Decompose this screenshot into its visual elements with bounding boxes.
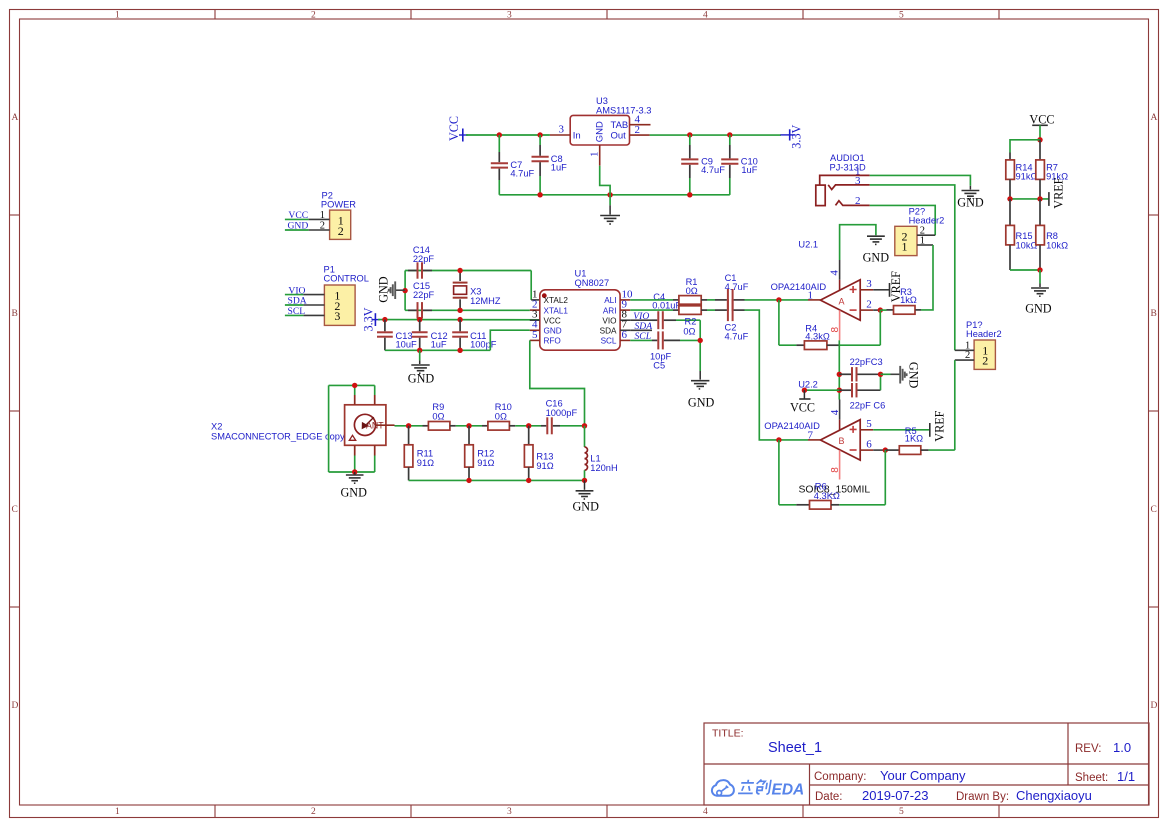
resistor R14 [1006, 153, 1038, 199]
wire jack pin1 to gnd [870, 175, 971, 185]
svg-text:GND: GND [376, 276, 390, 303]
U2.2 pin 4 top [829, 400, 841, 431]
resistor R12 [465, 426, 495, 481]
node junction A output [776, 297, 781, 302]
svg-text:Date:: Date: [815, 791, 843, 803]
svg-text:GND: GND [863, 251, 890, 265]
svg-text:4.3KΩ: 4.3KΩ [814, 491, 840, 501]
svg-text:1: 1 [320, 210, 325, 221]
capacitor C15 [408, 281, 435, 319]
svg-text:5: 5 [899, 11, 904, 21]
net label VIO on pin8 wire [630, 311, 652, 322]
capacitor C1 [707, 273, 749, 311]
U3 pin 4 TAB [630, 114, 651, 126]
ground symbol at L1 [573, 480, 600, 513]
net flag 3.3V (right of U3) [780, 124, 803, 148]
svg-text:3: 3 [559, 123, 565, 135]
svg-text:22pF: 22pF [413, 290, 435, 300]
svg-text:GND: GND [544, 327, 562, 336]
U1 pin 3 VCC [530, 309, 561, 326]
svg-text:2: 2 [311, 11, 316, 21]
ground symbol jack [957, 186, 984, 210]
node junction C3 left [837, 372, 842, 377]
svg-text:3: 3 [507, 807, 512, 817]
svg-text:91kΩ: 91kΩ [1016, 171, 1038, 181]
svg-text:4.7uF: 4.7uF [725, 332, 749, 342]
svg-text:SCL: SCL [601, 337, 617, 346]
svg-text:D: D [1151, 701, 1158, 711]
svg-text:R9: R9 [432, 402, 444, 412]
ground flag right of C3 [881, 362, 921, 389]
wire xtal2 riser to U1 pin1 [530, 271, 532, 300]
wire U3 out to 3.3V [650, 134, 781, 136]
svg-text:SCL: SCL [635, 331, 652, 342]
P1 pin 3 [303, 314, 324, 316]
ground rail under regulator [499, 194, 730, 196]
svg-text:1/1: 1/1 [1117, 769, 1135, 784]
svg-text:XTAL1: XTAL1 [544, 306, 569, 315]
capacitor C6 [839, 374, 885, 410]
title block [704, 723, 1149, 805]
svg-text:1: 1 [589, 152, 601, 158]
wire 3.3V rail [378, 319, 541, 321]
svg-text:3: 3 [334, 309, 340, 323]
svg-text:3: 3 [507, 11, 512, 21]
svg-text:A: A [12, 113, 19, 123]
connector X2 SMACONNECTOR_EDGE [211, 405, 386, 446]
svg-text:22pF: 22pF [413, 254, 435, 264]
capacitor C12 [412, 320, 448, 351]
P2 pin 2 [309, 221, 330, 232]
node junction VCC/dividers [1037, 137, 1042, 142]
resistor R10 [482, 402, 541, 430]
node junction X3 bottom [457, 308, 462, 313]
node junction at C10 top [727, 132, 732, 137]
node junction rail/L1 [582, 478, 587, 483]
resistor R1 [630, 277, 707, 304]
svg-text:VREF: VREF [1052, 177, 1066, 208]
P1 pin 1 [303, 294, 324, 296]
svg-text:1uF: 1uF [551, 163, 567, 173]
wire C1 to opamp A output [745, 299, 809, 301]
svg-text:2: 2 [311, 807, 316, 817]
X2 shield pins bottom [329, 445, 375, 474]
svg-text:22pFC3: 22pFC3 [850, 357, 883, 367]
connector P2 POWER [321, 191, 356, 240]
capacitor C13 [377, 320, 417, 351]
svg-text:10uF: 10uF [396, 340, 418, 350]
U1 pin 2 XTAL1 [530, 299, 569, 316]
svg-text:GND: GND [288, 221, 309, 232]
resistor R3 [880, 287, 921, 314]
svg-text:8: 8 [830, 467, 841, 473]
svg-text:GND: GND [595, 121, 606, 142]
node junction B output [776, 437, 781, 442]
capacitor C4 [652, 292, 700, 329]
U1 pin 8 VIO [602, 309, 630, 326]
svg-text:4.7uF: 4.7uF [510, 169, 534, 179]
svg-text:U3: U3 [596, 96, 608, 106]
svg-text:5: 5 [899, 807, 904, 817]
wire VCC to U3 pin3 [466, 134, 550, 136]
U1 pin 1 XTAL2 [532, 288, 568, 305]
node junction A inverting input [878, 307, 883, 312]
net flag VCC at U2.2 [790, 388, 839, 415]
svg-text:5: 5 [866, 418, 872, 430]
U2.1 pin 4 top [829, 260, 841, 290]
wire rail to U1 pin4 [490, 330, 530, 350]
ground symbol under C12 [408, 350, 435, 385]
ground symbol under C5 [688, 371, 715, 410]
svg-text:R13: R13 [536, 452, 553, 462]
U1 pin 4 GND [530, 319, 562, 336]
svg-text:SDA: SDA [600, 327, 617, 336]
svg-text:120nH: 120nH [590, 463, 617, 473]
svg-text:0Ω: 0Ω [686, 286, 698, 296]
node junction R13 top [526, 423, 531, 428]
svg-text:CONTROL: CONTROL [324, 274, 369, 284]
capacitor C8 [532, 135, 568, 195]
P1? pin 2 [955, 350, 974, 361]
X2 signal pin wire [376, 424, 395, 426]
svg-text:U2.2: U2.2 [798, 379, 818, 389]
resistor R4 feedback [779, 300, 880, 350]
svg-text:91Ω: 91Ω [417, 458, 434, 468]
svg-text:SMACONNECTOR_EDGE copy: SMACONNECTOR_EDGE copy [211, 432, 345, 442]
title block text [712, 728, 1135, 804]
capacitor C3 [839, 357, 882, 382]
wire C2 to opamp B output (long drop) [745, 310, 809, 440]
svg-text:12MHZ: 12MHZ [470, 296, 501, 306]
wire jack pin2 to P2? header pin2 [870, 205, 936, 235]
wire A pin8 down to VCC node [838, 340, 840, 399]
svg-text:4: 4 [829, 270, 841, 276]
U2.1 pin 8 bottom [830, 310, 841, 340]
node junction at C7 top [497, 132, 502, 137]
svg-text:0.01uF: 0.01uF [652, 301, 681, 311]
wire pin4 to gnd [840, 225, 876, 260]
node junction C12 top [417, 317, 422, 322]
node junction C11 top [457, 317, 462, 322]
svg-text:VCC: VCC [447, 116, 461, 141]
node junction R12 top [466, 423, 471, 428]
svg-text:R12: R12 [477, 449, 494, 459]
svg-text:7: 7 [808, 429, 814, 441]
wire jack pin3 to P1? header pin1 [870, 185, 955, 350]
svg-text:TITLE:: TITLE: [712, 728, 744, 740]
net label SCL on pin6 wire [630, 331, 652, 342]
svg-text:91Ω: 91Ω [477, 458, 494, 468]
svg-text:R2: R2 [685, 316, 697, 326]
connector P1? Header2 [966, 320, 1002, 369]
svg-text:B: B [839, 436, 845, 446]
net flag VREF at U2.1 pin3 [889, 271, 903, 302]
svg-text:10kΩ: 10kΩ [1016, 240, 1038, 250]
svg-text:Sheet:: Sheet: [1075, 772, 1108, 784]
node junction C5/C4 gnd [698, 338, 703, 343]
svg-text:REV:: REV: [1075, 743, 1101, 755]
svg-text:SDA: SDA [288, 296, 307, 307]
svg-text:1: 1 [808, 289, 814, 301]
svg-text:3.3V: 3.3V [790, 124, 804, 148]
svg-text:A: A [1151, 113, 1158, 123]
svg-text:1: 1 [920, 235, 925, 246]
svg-text:VCC: VCC [288, 210, 308, 221]
capacitor C11 [452, 320, 497, 351]
svg-text:3: 3 [866, 278, 872, 290]
rf ground rail [409, 479, 585, 481]
ic U1 QN8027 [540, 269, 620, 351]
net label SDA at P1 [285, 296, 307, 307]
svg-text:Company:: Company: [814, 771, 866, 783]
svg-text:X2: X2 [211, 422, 222, 432]
P2 pin 1 [309, 210, 330, 221]
svg-text:U1: U1 [575, 269, 587, 279]
wire divider bottom [1010, 269, 1040, 271]
svg-text:C: C [1151, 505, 1157, 515]
node junction rail/R12 [466, 478, 471, 483]
net label GND at P2 [285, 221, 309, 232]
svg-text:X3: X3 [470, 287, 481, 297]
svg-text:4: 4 [829, 409, 841, 415]
U1 pin 10 ALI [604, 288, 633, 305]
ground flag left of C15 [376, 276, 405, 303]
connector P1 CONTROL [324, 265, 369, 326]
resistor R11 [404, 426, 434, 481]
svg-text:1.0: 1.0 [1113, 740, 1131, 755]
svg-text:0Ω: 0Ω [683, 326, 695, 336]
svg-text:SCL: SCL [288, 306, 306, 317]
svg-text:6: 6 [622, 329, 628, 341]
svg-text:Chengxiaoyu: Chengxiaoyu [1016, 788, 1092, 803]
svg-text:QN8027: QN8027 [575, 278, 610, 288]
U2.2 pin 5 + input [860, 418, 929, 430]
svg-text:GND: GND [957, 196, 984, 210]
node junction X3 top [457, 268, 462, 273]
node junction xtal gnd flag [402, 288, 407, 293]
svg-text:Header2: Header2 [966, 329, 1002, 339]
node junction bottom/R8 [1037, 267, 1042, 272]
svg-text:GND: GND [408, 372, 435, 386]
U2.2 pin 6 - input [860, 439, 885, 451]
svg-text:2: 2 [855, 195, 861, 207]
svg-text:1KΩ: 1KΩ [905, 434, 923, 444]
svg-text:B: B [1151, 309, 1157, 319]
svg-text:B: B [12, 309, 18, 319]
svg-text:3: 3 [855, 175, 861, 187]
node junction rail/R13 [526, 478, 531, 483]
node junction rail/C9 [687, 192, 692, 197]
net label SCL at P1 [285, 306, 305, 317]
svg-text:D: D [12, 701, 19, 711]
wire VIO/SCL drop to ground [699, 320, 701, 371]
svg-text:2: 2 [338, 224, 344, 238]
wire P2? pin1 down to R3 [921, 245, 933, 310]
node junction C13 top [382, 317, 387, 322]
wire xtal bottom [405, 309, 530, 311]
svg-text:1: 1 [115, 807, 120, 817]
capacitor C16 [541, 399, 585, 435]
svg-text:1000pF: 1000pF [546, 408, 578, 418]
ground symbol at U2.1 pin4 [863, 236, 890, 264]
node junction rail/C8 [537, 192, 542, 197]
svg-text:10kΩ: 10kΩ [1046, 240, 1068, 250]
resistor R6 feedback [779, 440, 885, 509]
net label VCC at P2 [285, 210, 309, 221]
svg-text:8: 8 [830, 327, 841, 333]
lceda logo [712, 780, 804, 799]
resistor R7 [1036, 140, 1068, 199]
svg-text:L1: L1 [590, 454, 600, 464]
svg-text:GND: GND [907, 362, 921, 389]
U3 pin 3 In [550, 123, 570, 135]
svg-text:0Ω: 0Ω [432, 412, 444, 422]
svg-text:XTAL2: XTAL2 [544, 296, 569, 305]
svg-text:Your Company: Your Company [880, 768, 966, 783]
svg-text:1: 1 [115, 11, 120, 21]
capacitor C10 [721, 135, 758, 195]
svg-text:VREF: VREF [933, 410, 947, 441]
svg-text:ALI: ALI [604, 296, 616, 305]
svg-text:GND: GND [573, 500, 600, 514]
node junction at C9 top [687, 132, 692, 137]
net label VIO at P1 [285, 285, 306, 296]
ground symbol under U3 [600, 195, 620, 224]
P2? pin 1 [917, 235, 933, 246]
svg-text:A: A [839, 296, 845, 306]
svg-text:GND: GND [341, 486, 368, 500]
P1 pin 2 [303, 304, 324, 306]
node junction rail/C12 [417, 348, 422, 353]
svg-text:1uF: 1uF [741, 165, 757, 175]
net flag VREF at U2.2 pin5 [930, 410, 947, 441]
svg-text:Header2: Header2 [909, 216, 945, 226]
ground rail under C13-C11 [385, 349, 490, 351]
P2? pin 2 [917, 226, 935, 237]
resistor R9 [423, 402, 483, 430]
net label SDA on pin7 wire [630, 321, 652, 332]
svg-text:6: 6 [866, 439, 872, 451]
net flag VCC (left of U3) [447, 116, 468, 142]
svg-text:VCC: VCC [790, 401, 815, 415]
connector AUDIO1 PJ-313D [816, 153, 870, 207]
wire RFO route to L1 junction [530, 340, 585, 425]
node junction rail/C11 [457, 348, 462, 353]
svg-text:GND: GND [1025, 302, 1052, 316]
resistor R2 [630, 306, 707, 337]
crystal X3 12MHZ [453, 271, 501, 311]
capacitor C5 [650, 331, 700, 370]
U3 pin 2 Out [630, 124, 650, 136]
node junction mid/R7 [1037, 196, 1042, 201]
svg-text:In: In [573, 130, 581, 141]
svg-text:2: 2 [635, 124, 641, 136]
P1? pin 1 [955, 340, 974, 351]
svg-text:AMS1117-3.3: AMS1117-3.3 [596, 106, 651, 116]
node junction rail/GND stem [607, 192, 612, 197]
svg-text:ARI: ARI [603, 306, 617, 315]
wire xtal left vertical [404, 271, 406, 311]
net flag 3.3V (left of C13) [362, 307, 381, 331]
svg-text:5: 5 [532, 329, 538, 341]
wire VREF mid rail [1010, 198, 1049, 200]
node junction R11 top [406, 423, 411, 428]
ground symbol divider [1025, 270, 1052, 316]
net flag VREF divider [1049, 177, 1066, 208]
U3 pin 1 GND [589, 145, 601, 166]
U2.1 pin 3 + input [860, 278, 889, 290]
U2.2 pin 8 bottom [830, 450, 841, 479]
regulator U3 AMS1117-3.3 [570, 96, 651, 145]
capacitor C7 [491, 135, 535, 195]
U1 pin 9 ARI [603, 299, 630, 316]
svg-text:91Ω: 91Ω [536, 461, 553, 471]
resistor R8 [1036, 199, 1068, 270]
svg-text:4.7uF: 4.7uF [701, 165, 725, 175]
node junction at C8 top [537, 132, 542, 137]
svg-text:2019-07-23: 2019-07-23 [862, 788, 929, 803]
resistor R5 [885, 426, 955, 455]
op-amp U2.2 OPA2140AID (B) [764, 420, 860, 460]
U1 pin 6 SCL [601, 329, 631, 346]
U2.1 pin 2 - input [860, 299, 880, 311]
wire U3 pin1 to rail (jog) [600, 166, 610, 195]
svg-text:4: 4 [703, 807, 708, 817]
node junction C3 right [878, 372, 883, 377]
capacitor C9 [681, 135, 725, 195]
capacitor C2 [707, 299, 749, 341]
svg-text:C: C [12, 505, 18, 515]
svg-text:OPA2140AID: OPA2140AID [771, 281, 827, 292]
svg-text:VCC: VCC [544, 316, 561, 325]
svg-text:R11: R11 [417, 449, 433, 459]
svg-text:1uF: 1uF [431, 340, 447, 350]
U1 pin 5 RFO [530, 329, 561, 346]
svg-text:1kΩ: 1kΩ [900, 295, 917, 305]
wire P1? pin2 down to R5 [954, 360, 956, 450]
svg-text:Out: Out [611, 130, 627, 141]
node junction mid/R14 [1007, 196, 1012, 201]
svg-text:100pF: 100pF [470, 340, 497, 350]
wire divider top [1010, 140, 1040, 153]
svg-text:4: 4 [703, 11, 708, 21]
svg-text:R10: R10 [495, 402, 512, 412]
U2.2 pin 7 output [808, 429, 821, 441]
connector P2? Header2 [895, 207, 944, 256]
svg-text:2: 2 [982, 354, 988, 368]
svg-text:EDA: EDA [772, 782, 805, 799]
resistor R13 [524, 426, 553, 481]
inductor L1 [585, 426, 618, 481]
svg-text:POWER: POWER [321, 200, 356, 210]
svg-text:2: 2 [866, 299, 872, 311]
svg-text:GND: GND [688, 396, 715, 410]
svg-text:22pF C6: 22pF C6 [850, 400, 886, 410]
node junction C16/L1 [582, 423, 587, 428]
svg-text:U2.1: U2.1 [798, 240, 818, 250]
node junction C6 left [837, 388, 842, 393]
svg-text:1: 1 [902, 240, 908, 254]
svg-text:VIO: VIO [602, 316, 616, 325]
svg-text:TAB: TAB [611, 120, 629, 131]
wire xtal top [405, 270, 531, 272]
svg-text:VIO: VIO [288, 285, 305, 296]
svg-text:2: 2 [320, 221, 325, 232]
net flag VCC top right [1029, 113, 1054, 140]
node junction B inverting input [883, 447, 888, 452]
capacitor C14 [408, 245, 434, 279]
svg-text:2: 2 [965, 350, 970, 361]
